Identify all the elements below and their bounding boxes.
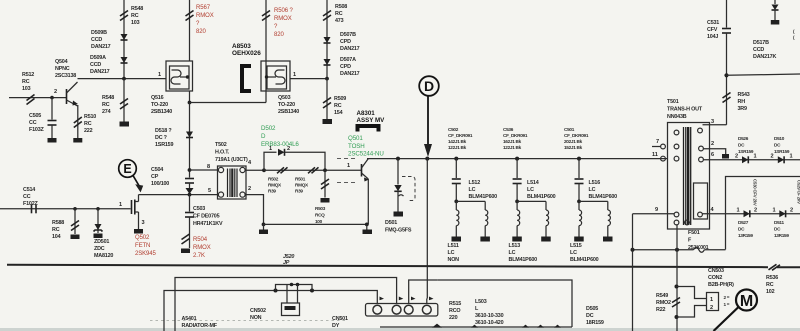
svg-text:9: 9: [655, 207, 658, 213]
svg-text:154: 154: [334, 110, 343, 116]
node drain rail junction: [188, 193, 192, 197]
svg-text:T501: T501: [667, 99, 679, 105]
wire R506 column: [265, 0, 267, 103]
svg-text:A8503: A8503: [232, 43, 251, 50]
svg-text:RC: RC: [335, 11, 343, 17]
wire C531 to node: [726, 33, 728, 125]
wire lower: [123, 79, 125, 122]
svg-text:Q503: Q503: [278, 95, 291, 101]
svg-text:TOSH: TOSH: [348, 143, 365, 150]
svg-text:R543: R543: [738, 92, 750, 98]
wire relay coil leads: [286, 285, 288, 304]
resistor R536: [769, 264, 777, 270]
wire relay loop: [276, 285, 313, 291]
svg-text:RC: RC: [334, 103, 342, 109]
svg-text:11: 11: [652, 152, 658, 158]
svg-text:F103Z: F103Z: [29, 127, 44, 133]
svg-text:CC: CC: [29, 120, 37, 126]
node at C505 tap: [50, 96, 54, 100]
wire ZD501 drop: [97, 209, 99, 233]
node T502 pin8 tap: [188, 168, 192, 172]
wire long chassis line: [7, 265, 768, 267]
svg-text:103: 103: [22, 86, 31, 92]
svg-text:RMOX: RMOX: [196, 13, 214, 19]
svg-text:ZDC: ZDC: [94, 246, 105, 252]
ground below: [120, 122, 130, 127]
svg-text:DAN217: DAN217: [340, 71, 360, 77]
svg-text:7: 7: [656, 139, 659, 145]
ground below R504: [181, 249, 190, 254]
svg-text:Q516: Q516: [151, 95, 164, 101]
ground at T502 pin2: [259, 230, 268, 235]
resistor R509: [323, 98, 331, 104]
svg-text:M: M: [740, 293, 753, 310]
svg-text:RMOX: RMOX: [274, 16, 292, 22]
node D arrow tap: [425, 157, 429, 161]
svg-text:D: D: [424, 78, 434, 94]
bottom scanner gray bar: [0, 328, 800, 331]
wire C505 drop: [51, 98, 53, 120]
transformer T502: [218, 166, 247, 199]
svg-text:274: 274: [102, 109, 111, 115]
connector CN503: [707, 293, 719, 311]
svg-text:CON2: CON2: [708, 275, 722, 281]
svg-text:DC: DC: [738, 227, 745, 232]
inductor L511a: [455, 201, 457, 210]
fuse F501: [694, 247, 705, 252]
svg-text:3R9: 3R9: [738, 106, 747, 112]
svg-text:NON: NON: [448, 257, 460, 263]
svg-text:152J1 Bk: 152J1 Bk: [564, 145, 583, 150]
svg-text:RC: RC: [52, 227, 60, 233]
svg-text:DC ?: DC ?: [155, 135, 167, 141]
svg-text:13R159: 13R159: [738, 233, 753, 238]
svg-text:D510: D510: [774, 136, 785, 141]
wire fuse rail: [633, 249, 694, 251]
wire source rail: [0, 208, 131, 210]
svg-text:BLM41P600: BLM41P600: [527, 194, 556, 200]
wire column lower: [189, 195, 191, 212]
wire D501 drop: [397, 159, 399, 185]
svg-text:E: E: [123, 162, 131, 176]
svg-text:2: 2: [248, 186, 251, 192]
resistor R508: [323, 11, 331, 17]
svg-text:Q504: Q504: [55, 59, 68, 65]
node D501 tap: [396, 157, 400, 161]
transistor Q516 TO-220 box: [166, 61, 193, 91]
node R588 tap: [73, 207, 77, 211]
node L514 tap: [515, 157, 519, 161]
svg-text:D509B: D509B: [91, 30, 107, 36]
svg-text:A8301: A8301: [357, 110, 376, 117]
svg-text:ASSY MV: ASSY MV: [357, 117, 386, 124]
svg-text:473: 473: [335, 18, 344, 24]
svg-text:NPNC: NPNC: [55, 66, 70, 72]
svg-text:RC: RC: [102, 102, 110, 108]
ground below Q502 source: [134, 229, 143, 234]
ground below R588: [71, 235, 80, 240]
svg-text:L513: L513: [509, 243, 521, 249]
capacitor C531: [722, 28, 731, 30]
svg-text:C536: C536: [503, 127, 514, 132]
svg-text:1: 1: [773, 208, 776, 214]
svg-text:104J: 104J: [707, 34, 718, 40]
resistor R548 lower 274: [120, 99, 128, 105]
ground L511b: [480, 237, 490, 242]
svg-text:R22: R22: [656, 307, 665, 313]
svg-text:RMO2: RMO2: [656, 300, 671, 306]
node emitter rail: [365, 223, 369, 227]
svg-text:FMQ-G5FS: FMQ-G5FS: [385, 228, 412, 234]
ground below R503: [321, 198, 330, 203]
ground L511a: [452, 237, 462, 242]
diode D510: [778, 156, 784, 163]
node L512 tap: [454, 157, 458, 161]
wire col1 cross: [456, 200, 485, 202]
svg-text:B2B-PH(R): B2B-PH(R): [708, 282, 734, 288]
svg-text:TRANS-H OUT: TRANS-H OUT: [667, 107, 703, 113]
svg-text:D502: D502: [261, 125, 276, 132]
svg-text:CCD: CCD: [753, 47, 764, 53]
inductor L511b: [484, 201, 486, 210]
svg-text:R501: R501: [295, 177, 306, 182]
pin marks CN501: [380, 297, 385, 301]
svg-text:13R159: 13R159: [774, 233, 789, 238]
resistor R503: [321, 179, 329, 185]
connector CN501: [366, 304, 438, 317]
diode D501: [394, 185, 401, 191]
ground L513a: [512, 237, 522, 242]
resistor R548: [120, 11, 128, 17]
svg-text:R512: R512: [22, 72, 34, 78]
svg-text:719A1 (U3CT): 719A1 (U3CT): [215, 157, 248, 163]
svg-text:1 =: 1 =: [724, 302, 730, 307]
diode D517B top right: [774, 0, 776, 4]
wire drop col2: [516, 159, 518, 178]
svg-text:CF_DKR091: CF_DKR091: [448, 133, 473, 138]
svg-text:R506 ?: R506 ?: [274, 8, 294, 14]
svg-text:1: 1: [754, 154, 757, 160]
svg-text:CPD: CPD: [340, 64, 351, 70]
svg-text:Q501: Q501: [348, 135, 363, 142]
svg-text:DY: DY: [332, 323, 340, 329]
svg-text:BLM41P600: BLM41P600: [509, 257, 538, 263]
resistor R501: [308, 167, 315, 173]
capacitor col2: [513, 178, 522, 180]
wire HV to right edge: [727, 74, 800, 75]
wire to R504: [189, 217, 191, 248]
svg-text:5: 5: [208, 188, 211, 194]
svg-text:2 =: 2 =: [724, 295, 730, 300]
bracket symbol A8503: [242, 66, 251, 91]
svg-text:BLM41P600: BLM41P600: [570, 257, 599, 263]
svg-text:122J1 Bk: 122J1 Bk: [503, 145, 522, 150]
inductor L515a: [578, 201, 580, 210]
wire link Q516-Q503 bottoms: [190, 102, 267, 104]
bracket symbol A8301: [358, 126, 379, 132]
svg-text:C501: C501: [564, 127, 575, 132]
inductor L515b: [607, 201, 609, 210]
svg-text:RC: RC: [84, 121, 92, 127]
svg-text:2SB1340: 2SB1340: [151, 109, 172, 115]
svg-text:OEHX026: OEHX026: [232, 50, 261, 57]
svg-text:202J1 Bk: 202J1 Bk: [564, 139, 583, 144]
node fuse T501 tap: [675, 248, 679, 252]
svg-text:100: 100: [315, 219, 323, 224]
svg-text:CPD: CPD: [340, 39, 351, 45]
svg-text:H.O.T.: H.O.T.: [215, 150, 230, 156]
pin 3 wire: [703, 124, 727, 126]
diode D526: [742, 156, 748, 163]
diode polarity mark C504: [186, 188, 194, 194]
capacitor C504: [185, 178, 194, 180]
wire motor pointer: [714, 307, 739, 331]
wire rail upper to CN501 pin2: [175, 278, 397, 331]
zener ZD501: [95, 224, 102, 230]
svg-text:L511: L511: [448, 243, 459, 249]
svg-text:R548: R548: [102, 95, 114, 101]
svg-text:HR471K1KV: HR471K1KV: [193, 221, 223, 227]
wire col2 cross: [517, 200, 546, 202]
svg-text:C530 CFV 2kV: C530 CFV 2kV: [753, 179, 758, 206]
ground L513b: [541, 237, 551, 242]
capacitor col1: [452, 178, 461, 180]
capacitor C514: [31, 204, 33, 213]
svg-text:R39: R39: [268, 189, 276, 194]
wire Q503 to R508 column: [290, 78, 327, 80]
node ZD501 tap: [96, 207, 100, 211]
pin 2 wire: [704, 149, 726, 155]
svg-text:3610-10-420: 3610-10-420: [475, 320, 504, 326]
wire R503 drop: [324, 170, 326, 197]
wire CN503 upper lead: [677, 287, 707, 299]
node bracket bottom: [675, 315, 679, 319]
svg-text:2: 2: [54, 89, 57, 95]
svg-text:2: 2: [754, 208, 757, 214]
svg-text:RMQX: RMQX: [295, 183, 309, 188]
wire column: [189, 103, 191, 178]
svg-text:RCO: RCO: [449, 308, 460, 314]
svg-text:T502: T502: [215, 142, 227, 148]
transformer T501: [668, 123, 710, 230]
node Q516 bottom: [188, 101, 192, 105]
svg-text:L515: L515: [570, 243, 582, 249]
ground below R509: [323, 119, 333, 124]
svg-text:DC: DC: [586, 313, 594, 319]
ground L515a: [574, 237, 584, 242]
svg-text:2SB1340: 2SB1340: [278, 109, 299, 115]
svg-text:820: 820: [196, 29, 206, 35]
node bus tap: [122, 77, 126, 81]
svg-text:D527: D527: [738, 220, 749, 225]
node loop a: [290, 283, 294, 287]
transistor Q504: [66, 89, 68, 104]
wire R588 drop: [74, 209, 76, 234]
resistor R506: [262, 11, 270, 17]
ground below R510: [73, 138, 82, 143]
svg-text:LC: LC: [527, 187, 534, 193]
node fuse left: [631, 248, 635, 252]
wire vertical T501 bottom drop: [676, 225, 678, 331]
svg-text:1SR159: 1SR159: [155, 142, 173, 148]
svg-text:LC: LC: [589, 187, 596, 193]
svg-text:Q502: Q502: [135, 235, 150, 241]
svg-text:RC: RC: [766, 282, 774, 288]
svg-text:C514: C514: [23, 187, 35, 193]
ground below Q501: [363, 230, 373, 235]
svg-text:2: 2: [790, 208, 793, 214]
svg-text:C529 CF 2kV: C529 CF 2kV: [797, 180, 800, 204]
svg-text:LC: LC: [469, 187, 476, 193]
node HV line: [724, 73, 728, 77]
node R503 tap: [323, 168, 327, 172]
diode flyback 2: [779, 210, 785, 217]
svg-text:2: 2: [735, 154, 738, 160]
svg-text:D509A: D509A: [90, 55, 106, 61]
ground below D501: [394, 212, 404, 217]
svg-text:LC: LC: [509, 250, 516, 256]
svg-text:2: 2: [771, 154, 774, 160]
svg-text:C504: C504: [151, 167, 163, 173]
svg-text:R548: R548: [131, 6, 143, 12]
svg-text:R549: R549: [656, 293, 668, 299]
node pin2 ground rail: [262, 223, 266, 227]
svg-text:D518 ?: D518 ?: [155, 128, 171, 134]
wire R567 column: [189, 0, 191, 61]
diode D509A: [121, 57, 128, 63]
dashed fragment A: [337, 158, 356, 160]
svg-text:CN501: CN501: [332, 316, 348, 322]
svg-text:CN503: CN503: [708, 268, 724, 274]
motor M: [736, 290, 757, 311]
svg-text:ERB83-004L6: ERB83-004L6: [261, 141, 299, 148]
capacitor C503: [185, 212, 194, 214]
svg-text:D505: D505: [586, 306, 598, 312]
diode D518: [186, 132, 193, 138]
resistor R502: [277, 167, 284, 173]
svg-text:L512: L512: [469, 180, 481, 186]
wire T502 pin4 out: [246, 169, 264, 171]
svg-text:MA8120: MA8120: [94, 253, 113, 259]
svg-text:DAN217K: DAN217K: [753, 54, 776, 60]
svg-text:222: 222: [84, 128, 93, 134]
wire CN503 lower lead: [677, 306, 707, 318]
svg-text:2SC5244-NU: 2SC5244-NU: [348, 151, 384, 158]
svg-text:CCD: CCD: [91, 37, 102, 43]
diode D502: [278, 149, 285, 156]
svg-text:1: 1: [737, 208, 740, 214]
inductor L513b: [545, 201, 547, 210]
svg-text:L514: L514: [527, 180, 539, 186]
svg-text:CF_DKR091: CF_DKR091: [503, 133, 528, 138]
svg-text:R588: R588: [52, 220, 64, 226]
resistor R512: [27, 95, 35, 101]
svg-text:RCQ: RCQ: [315, 213, 325, 218]
wire C531 column: [726, 0, 728, 28]
svg-text:C505: C505: [29, 113, 41, 119]
svg-text:A5401: A5401: [182, 316, 197, 322]
svg-text:DAN217: DAN217: [90, 69, 110, 75]
svg-text:RADIATOR-MF: RADIATOR-MF: [182, 323, 218, 329]
inductor L513a: [516, 201, 518, 210]
node relay left: [274, 289, 278, 293]
svg-text:1: 1: [347, 163, 350, 169]
svg-text:RH: RH: [738, 99, 746, 105]
svg-text:R509: R509: [334, 96, 346, 102]
svg-text:D517B: D517B: [753, 40, 769, 46]
capacitor col3: [575, 178, 584, 180]
svg-text:251K001: 251K001: [688, 245, 709, 251]
svg-text:F501: F501: [688, 230, 700, 236]
node D flag: [419, 76, 439, 96]
node L516 tap: [577, 157, 581, 161]
diode flyback 1: [744, 210, 750, 217]
svg-text:103: 103: [131, 20, 140, 26]
svg-text:CCD: CCD: [90, 62, 101, 68]
svg-text:3: 3: [142, 220, 145, 226]
svg-text:CF DE0705: CF DE0705: [193, 214, 220, 220]
svg-text:DAN217: DAN217: [91, 44, 111, 50]
svg-text:C503: C503: [193, 206, 205, 212]
svg-text:NON: NON: [250, 315, 262, 321]
wire rail lower to CN501 pin1: [164, 291, 377, 331]
bumps on L503 bottom: [432, 324, 442, 328]
svg-text:D511: D511: [774, 220, 784, 225]
node pin4 junction: [262, 168, 266, 172]
svg-text:BLM41P600: BLM41P600: [469, 194, 498, 200]
node col2: [515, 200, 519, 204]
svg-text:F102Z: F102Z: [23, 201, 38, 207]
svg-text:2SC3138: 2SC3138: [55, 73, 76, 79]
ground below C505: [48, 138, 57, 143]
svg-text:102: 102: [766, 289, 775, 295]
svg-text:CN502: CN502: [250, 308, 266, 314]
dashed thermistor box D501: [402, 177, 415, 201]
svg-text:DC: DC: [738, 143, 745, 148]
wire to T502 pin 8: [190, 169, 219, 171]
diode D507A: [324, 59, 331, 65]
resistor R588: [71, 221, 79, 227]
svg-text:RC: RC: [22, 79, 30, 85]
pin 4 wire with diodes: [703, 213, 800, 215]
svg-text:2.7K: 2.7K: [193, 253, 205, 259]
pin 7 stub: [652, 146, 661, 148]
svg-text:3: 3: [711, 119, 714, 125]
wire col3 cross: [579, 200, 608, 202]
resistor R567: [186, 11, 194, 17]
svg-text:R536: R536: [766, 275, 778, 281]
faint dotted line bottom left: [150, 320, 348, 322]
node col1: [454, 200, 458, 204]
svg-text:D: D: [261, 133, 266, 140]
svg-text:18R159: 18R159: [586, 320, 604, 326]
svg-text:DC: DC: [774, 143, 781, 148]
pad at pin6: [722, 154, 729, 159]
svg-text:2: 2: [711, 141, 714, 147]
svg-text:R508: R508: [335, 4, 347, 10]
svg-text:1SR159: 1SR159: [738, 149, 754, 154]
svg-text:3610-10-330: 3610-10-330: [475, 313, 504, 319]
svg-text:C502: C502: [448, 127, 459, 132]
pin stubs CN501: [376, 299, 378, 304]
diode D509B: [121, 34, 128, 40]
svg-text:122J1 Bk: 122J1 Bk: [448, 145, 467, 150]
svg-text:R567: R567: [196, 5, 211, 11]
wire bus into pin 11: [661, 158, 667, 160]
svg-text:2SK945: 2SK945: [135, 251, 157, 257]
svg-text:R510: R510: [84, 114, 96, 120]
wire Q501 emitter drop: [367, 179, 369, 224]
